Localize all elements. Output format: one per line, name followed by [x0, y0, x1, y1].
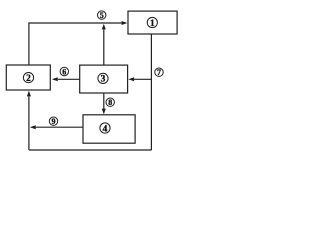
- node 3: [98, 73, 108, 84]
- label 8: [106, 98, 114, 107]
- svg-text:9: 9: [52, 117, 56, 126]
- svg-text:5: 5: [100, 11, 104, 20]
- wire arrow box3 down to box4: [102, 93, 106, 114]
- label 5: [98, 11, 106, 20]
- wire from box3 top up to top wire: [102, 24, 106, 65]
- block box1: [128, 11, 177, 34]
- node 1: [147, 17, 157, 28]
- block box4: [83, 115, 135, 143]
- label 7: [155, 68, 163, 77]
- wire arrow box4 left to riser: [30, 125, 83, 129]
- svg-text:7: 7: [157, 68, 161, 77]
- wire top from corner above box2 into box1: [29, 21, 128, 65]
- wire arrow box3 to box2: [52, 77, 80, 81]
- svg-text:4: 4: [103, 124, 108, 134]
- node 4: [100, 123, 110, 134]
- label 9: [49, 117, 57, 126]
- svg-text:2: 2: [26, 74, 31, 84]
- node 2: [23, 73, 33, 84]
- label 6: [60, 67, 68, 76]
- svg-text:1: 1: [150, 19, 155, 29]
- wire bottom from right corner to left riser: [29, 149, 151, 151]
- block box2: [6, 65, 50, 90]
- block box3: [80, 65, 128, 93]
- svg-text:8: 8: [108, 98, 112, 107]
- wire branch into box3 right side: [128, 77, 151, 81]
- svg-text:6: 6: [62, 67, 66, 76]
- svg-text:3: 3: [101, 75, 106, 85]
- wire right vertical from box1 bottom to bottom-right corner: [150, 34, 152, 150]
- wire left riser up into box2 bottom: [27, 91, 31, 150]
